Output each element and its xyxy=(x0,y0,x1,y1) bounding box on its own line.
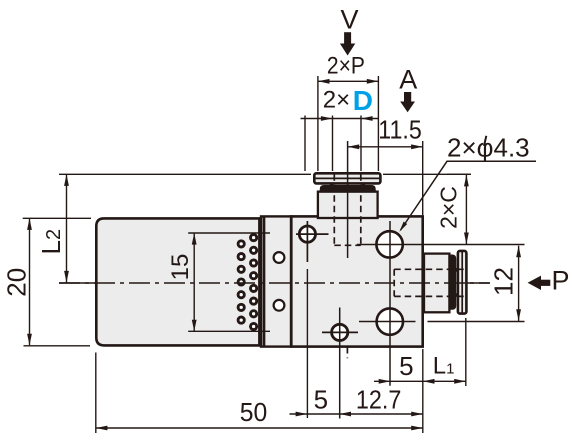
side fitting body xyxy=(424,254,449,313)
svg-text:12.7: 12.7 xyxy=(356,384,402,414)
main centerline (dash-dot) xyxy=(59,282,490,284)
knurl dots column left xyxy=(238,241,244,323)
dimension 5 upper-right and L1 xyxy=(374,318,466,386)
top fitting release ring (black band) xyxy=(321,183,376,192)
hidden bore of top fitting (dashed) xyxy=(334,174,361,358)
through hole bottom-right xyxy=(377,308,403,334)
side fitting release ring (black band) xyxy=(449,255,459,309)
vertical centerline through both holes xyxy=(389,221,391,386)
side fitting cap disc xyxy=(458,251,467,314)
dimension 12 xyxy=(489,246,522,321)
svg-text:2×: 2× xyxy=(323,87,350,114)
flange circle upper xyxy=(274,252,285,263)
svg-text:5: 5 xyxy=(399,351,413,381)
svg-text:A: A xyxy=(399,65,417,95)
label A with bold arrow xyxy=(399,65,417,113)
double line joint xyxy=(260,217,264,346)
svg-text:2×φ4.3: 2×φ4.3 xyxy=(447,133,530,163)
top fitting body xyxy=(318,192,378,218)
top fitting cap disc xyxy=(314,173,380,183)
label P with bold arrow xyxy=(466,266,569,296)
through hole top-right xyxy=(376,231,402,257)
dimension L2 xyxy=(36,174,471,283)
dimension 50 xyxy=(96,349,423,433)
dimension 2xC xyxy=(436,174,472,244)
svg-text:5: 5 xyxy=(314,385,328,415)
label 2x04.3 with leader xyxy=(399,133,536,232)
svg-text:12: 12 xyxy=(489,267,519,296)
svg-text:D: D xyxy=(353,85,373,116)
label V with bold arrow xyxy=(340,5,359,56)
horizontal centerline top hole / extension for 2xC and 12 xyxy=(357,244,525,246)
knurl dots column right xyxy=(251,235,257,330)
horizontal centerline bottom hole xyxy=(359,321,525,323)
svg-text:P: P xyxy=(552,266,570,296)
svg-text:20: 20 xyxy=(1,268,31,297)
screw hole top-left with crosshair xyxy=(296,221,329,418)
body barrel (left cylinder) xyxy=(96,218,261,345)
dimension 2xP xyxy=(318,53,379,172)
flange circle lower xyxy=(274,300,285,311)
flange plate section xyxy=(261,216,291,346)
svg-text:50: 50 xyxy=(240,397,268,427)
dimension 5 lower and 12.7 xyxy=(290,384,423,416)
svg-text:2×C: 2×C xyxy=(436,186,462,229)
hidden bore of side fitting (dashed) xyxy=(394,269,465,296)
svg-text:2×P: 2×P xyxy=(327,53,365,80)
dimension 11.5 xyxy=(348,115,423,259)
svg-text:11.5: 11.5 xyxy=(378,115,422,145)
svg-text:V: V xyxy=(341,5,359,35)
dimension 2xD (cyan D) xyxy=(301,85,379,171)
screw hole bottom with crosshair xyxy=(322,308,358,419)
dimension 20 xyxy=(1,218,91,345)
svg-text:15: 15 xyxy=(167,254,194,281)
dimension 15 xyxy=(167,233,270,331)
main block body xyxy=(291,216,422,346)
